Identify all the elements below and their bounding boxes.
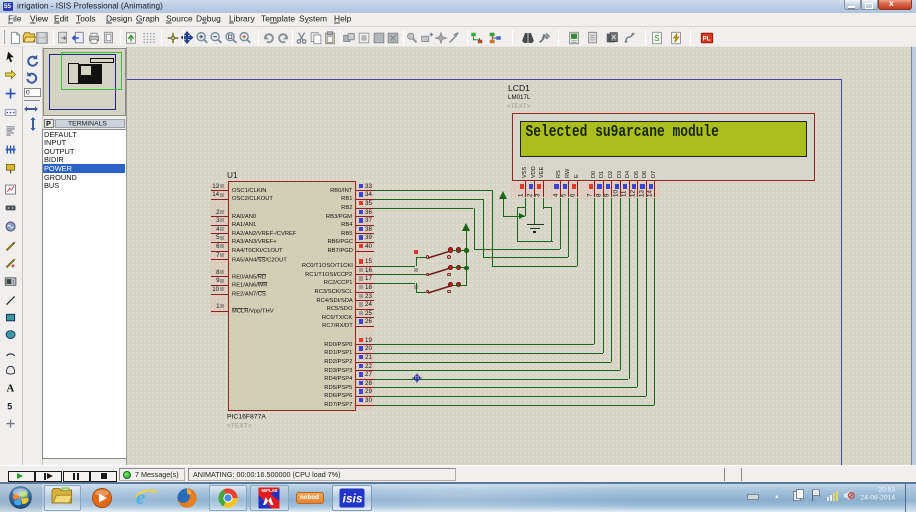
svg-text:MIPLAB: MIPLAB — [262, 487, 278, 492]
svg-text:isis: isis — [343, 492, 363, 506]
svg-text:5: 5 — [7, 401, 12, 411]
svg-text:S: S — [654, 34, 659, 43]
svg-text:A: A — [6, 384, 14, 394]
svg-text:e: e — [136, 486, 145, 508]
svg-text:PL: PL — [703, 35, 711, 42]
